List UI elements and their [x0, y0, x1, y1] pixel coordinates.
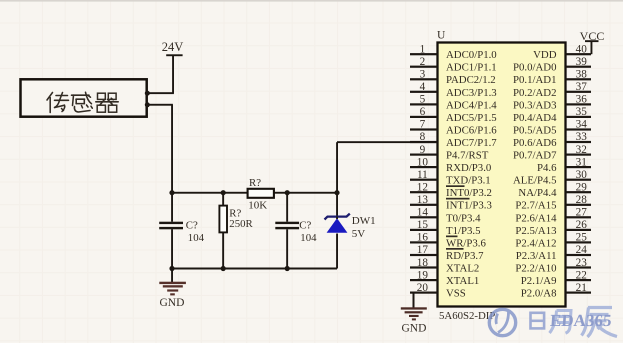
svg-text:P0.2/AD2: P0.2/AD2 [513, 87, 557, 99]
svg-text:250R: 250R [229, 218, 253, 230]
svg-text:28: 28 [576, 194, 588, 206]
svg-text:38: 38 [576, 69, 588, 81]
svg-text:WR/P3.6: WR/P3.6 [446, 237, 486, 249]
svg-text:39: 39 [576, 56, 588, 68]
svg-text:15: 15 [417, 219, 429, 231]
svg-text:T0/P3.4: T0/P3.4 [446, 212, 481, 224]
svg-text:31: 31 [576, 156, 587, 168]
svg-text:33: 33 [576, 131, 588, 143]
svg-text:P0.3/AD3: P0.3/AD3 [513, 99, 557, 111]
svg-text:20: 20 [417, 282, 429, 294]
svg-text:35: 35 [576, 106, 588, 118]
svg-text:XTAL1: XTAL1 [446, 275, 479, 287]
svg-text:5: 5 [420, 94, 426, 106]
svg-text:TXD/P3.1: TXD/P3.1 [446, 175, 491, 187]
svg-text:36: 36 [576, 94, 588, 106]
svg-text:104: 104 [188, 232, 205, 244]
svg-text:21: 21 [576, 282, 587, 294]
svg-text:16: 16 [417, 232, 429, 244]
svg-text:1: 1 [420, 43, 426, 55]
svg-text:P4.6: P4.6 [537, 162, 557, 174]
svg-text:ADC6/P1.6: ADC6/P1.6 [446, 124, 497, 136]
svg-text:GND: GND [402, 323, 427, 335]
svg-text:P0.6/AD6: P0.6/AD6 [513, 137, 557, 149]
svg-text:NA/P4.4: NA/P4.4 [518, 187, 557, 199]
svg-text:ADC0/P1.0: ADC0/P1.0 [446, 49, 497, 61]
svg-text:P0.4/AD4: P0.4/AD4 [513, 112, 557, 124]
svg-text:ADC3/P1.3: ADC3/P1.3 [446, 87, 497, 99]
svg-text:P2.1/A9: P2.1/A9 [521, 275, 557, 287]
svg-text:5V: 5V [352, 228, 366, 240]
svg-text:14: 14 [417, 207, 429, 219]
svg-text:27: 27 [576, 207, 588, 219]
svg-text:INT0/P3.2: INT0/P3.2 [446, 187, 492, 199]
svg-text:ADC4/P1.4: ADC4/P1.4 [446, 99, 497, 111]
svg-text:3: 3 [420, 69, 426, 81]
svg-text:5A60S2-DIP: 5A60S2-DIP [439, 310, 495, 322]
svg-text:34: 34 [576, 119, 588, 131]
svg-text:VDD: VDD [533, 49, 557, 61]
svg-text:C?: C? [186, 220, 198, 232]
svg-text:25: 25 [576, 232, 588, 244]
svg-text:P2.3/A11: P2.3/A11 [516, 250, 557, 262]
svg-text:P0.7/AD7: P0.7/AD7 [513, 150, 557, 162]
svg-text:4: 4 [420, 81, 426, 93]
svg-text:DW1: DW1 [352, 215, 376, 227]
svg-text:19: 19 [417, 269, 429, 281]
svg-text:P0.0/AD0: P0.0/AD0 [513, 62, 557, 74]
svg-text:32: 32 [576, 144, 587, 156]
svg-text:18: 18 [417, 257, 429, 269]
svg-text:P2.0/A8: P2.0/A8 [521, 288, 557, 300]
svg-text:104: 104 [300, 232, 317, 244]
svg-text:P2.7/A15: P2.7/A15 [515, 200, 556, 212]
svg-text:37: 37 [576, 81, 588, 93]
svg-text:30: 30 [576, 169, 588, 181]
svg-text:11: 11 [417, 169, 428, 181]
svg-text:VSS: VSS [446, 288, 466, 300]
svg-text:24V: 24V [162, 40, 184, 54]
svg-text:17: 17 [417, 244, 429, 256]
svg-text:13: 13 [417, 194, 429, 206]
svg-text:INT1/P3.3: INT1/P3.3 [446, 200, 492, 212]
svg-text:29: 29 [576, 181, 588, 193]
svg-text:GND: GND [160, 297, 185, 309]
svg-text:6: 6 [420, 106, 426, 118]
svg-text:P4.7/RST: P4.7/RST [446, 150, 489, 162]
svg-text:T1/P3.5: T1/P3.5 [446, 225, 481, 237]
svg-text:23: 23 [576, 257, 588, 269]
svg-text:ADC7/P1.7: ADC7/P1.7 [446, 137, 497, 149]
svg-text:XTAL2: XTAL2 [446, 262, 479, 274]
svg-text:U: U [437, 30, 446, 42]
svg-text:P2.5/A13: P2.5/A13 [515, 225, 556, 237]
svg-text:9: 9 [420, 144, 426, 156]
svg-text:12: 12 [417, 181, 428, 193]
svg-text:P0.5/AD5: P0.5/AD5 [513, 124, 557, 136]
svg-text:ALE/P4.5: ALE/P4.5 [513, 175, 557, 187]
svg-text:26: 26 [576, 219, 588, 231]
svg-text:EDA365: EDA365 [549, 311, 612, 330]
svg-text:C?: C? [299, 220, 311, 232]
svg-text:10: 10 [417, 156, 429, 168]
svg-text:40: 40 [576, 43, 588, 55]
svg-text:2: 2 [420, 56, 426, 68]
svg-text:R?: R? [249, 177, 261, 189]
svg-text:ADC1/P1.1: ADC1/P1.1 [446, 62, 497, 74]
svg-text:10K: 10K [248, 199, 267, 211]
svg-text:ADC5/P1.5: ADC5/P1.5 [446, 112, 497, 124]
svg-text:P2.2/A10: P2.2/A10 [515, 262, 556, 274]
svg-text:7: 7 [420, 119, 426, 131]
svg-text:RD/P3.7: RD/P3.7 [446, 250, 484, 262]
svg-text:22: 22 [576, 269, 587, 281]
svg-text:RXD/P3.0: RXD/P3.0 [446, 162, 491, 174]
svg-text:PADC2/1.2: PADC2/1.2 [446, 74, 496, 86]
svg-text:P2.4/A12: P2.4/A12 [515, 237, 556, 249]
svg-text:P2.6/A14: P2.6/A14 [515, 212, 557, 224]
svg-text:24: 24 [576, 244, 588, 256]
svg-text:P0.1/AD1: P0.1/AD1 [513, 74, 557, 86]
